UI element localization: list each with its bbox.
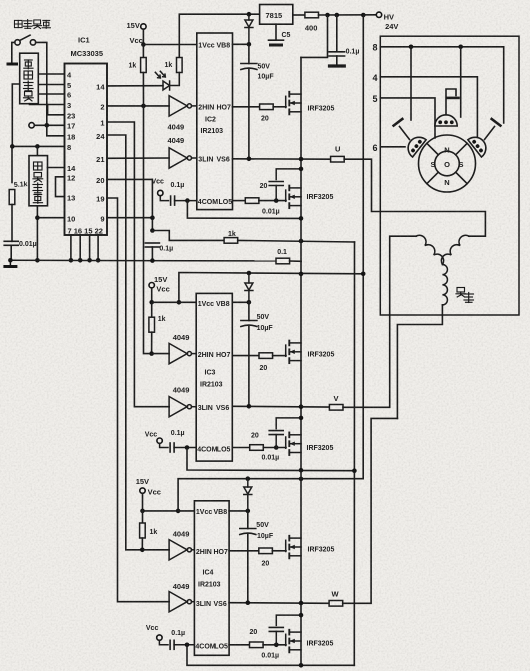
hall sensor right: [468, 133, 490, 157]
transistor IRF3205 (IC2 low): [286, 186, 301, 209]
node junction (187,447.5): [185, 445, 190, 450]
wire LO row IC4: [229, 644, 249, 646]
node throttle-gnd: [35, 258, 40, 263]
node pin17/18 junction: [45, 123, 50, 128]
wire VB row IC2: [233, 43, 249, 45]
node junction (301,417.9): [299, 416, 304, 421]
fuse U: [331, 156, 345, 162]
4049 inverter (IC3 HIN): [169, 343, 191, 363]
resistor 20 (IC3 gate high): [259, 353, 273, 359]
capacitor 0.01u (IC2): [276, 169, 301, 180]
resistor 1k (IC4): [142, 511, 144, 523]
wire COM down to source row IC4: [187, 645, 354, 666]
node junction (354.4,470.7): [352, 468, 357, 473]
node junction (301,273.9): [299, 272, 304, 277]
diode bootstrap IC4: [247, 479, 249, 487]
wire switch to ground bar: [12, 42, 15, 62]
wire hall supply row 8: [380, 47, 503, 123]
wire row8 drop to center hall: [460, 47, 462, 117]
sense/source bus vertical right: [353, 242, 355, 665]
diode bootstrap IC3: [248, 273, 250, 283]
node junction (178.9,302.3): [177, 300, 182, 305]
feed line 15V top (to 7815): [179, 14, 259, 57]
wire pin20 down: [107, 179, 152, 217]
node junction (460.7,46.8): [458, 45, 463, 50]
wire pin6: [38, 93, 64, 95]
wire pin2 to 4049 IC2: [107, 105, 169, 107]
4049 inverter (IC2 LIN): [169, 148, 191, 168]
wire switch right to pin17 node: [36, 42, 47, 125]
node bottom pins on bus: [69, 258, 74, 263]
4049 inverter (IC2 HIN): [169, 96, 191, 116]
wire pin3: [30, 103, 65, 106]
phase rail W: [300, 470, 302, 665]
IC3 IR2103 box: [196, 293, 232, 461]
resistor 20 (IC4 gate low): [249, 642, 263, 648]
wire COM down to source row IC3: [187, 448, 354, 471]
transistor IRF3205 (IC4 high): [286, 536, 301, 559]
resistor 1k (pullup pin2): [142, 45, 144, 58]
fuse W: [329, 601, 343, 607]
node junction (301,615.1): [299, 613, 304, 618]
transistor IRF3205 (IC3 high): [286, 341, 301, 364]
motor enclosure box: [380, 36, 519, 315]
wire hall block left to pin8 rail: [12, 84, 19, 146]
capacitor 50V 10uF (IC2 bootstrap): [248, 44, 250, 63]
rotor magnet: [419, 135, 476, 192]
wire pin5: [38, 84, 64, 86]
LED indicator: [155, 71, 169, 90]
capacitor 0.01u (left): [4, 241, 18, 245]
wire pin14 to LED: [107, 85, 163, 87]
node pin9/pin20: [150, 215, 155, 220]
lead right hall: [485, 119, 501, 140]
node junction (301,406.7): [299, 404, 304, 409]
node junction (248.9,406.3): [247, 404, 252, 409]
wire v1: pin19 down to IC4 LIN: [107, 198, 169, 602]
wire pin17: [34, 124, 64, 126]
node junction (248.9,14.2): [247, 12, 252, 17]
node Vcc row IC2: [141, 42, 146, 47]
node junction (276.2,447.5): [274, 445, 279, 450]
node junction (301,159): [299, 157, 304, 162]
wire 7815 out: [293, 14, 305, 16]
wire v4: pin2 net down to IC3 HIN: [144, 106, 152, 354]
wire VB row IC4: [229, 510, 248, 512]
resistor 400: [305, 12, 319, 18]
wire row8 drop to left hall: [410, 47, 412, 120]
node junction (151.7,302.3): [149, 300, 154, 305]
wire pin21 to 4049 IC2 LIN: [107, 157, 169, 159]
node bus left end: [8, 258, 13, 263]
wire COM down to source row: [187, 201, 301, 219]
transistor IRF3205 (IC2 high): [286, 92, 301, 115]
node junction (178.1,510.9): [176, 509, 181, 514]
wire Vcc row to IC2: [143, 44, 196, 46]
wire sense jog to 1k: [152, 231, 224, 241]
node junction (301,168.9): [299, 167, 304, 172]
fuse V: [329, 405, 343, 411]
IC4 IR2103 box: [194, 501, 229, 656]
node junction (248.9,44.3): [247, 42, 252, 47]
phase rail U: [300, 57, 302, 261]
node junction (301,665.3): [299, 663, 304, 668]
wire U to motor: [344, 159, 485, 236]
wire HO row IC3: [232, 355, 259, 357]
node junction (301,478.9): [299, 477, 304, 482]
ground symbol: [5, 260, 16, 266]
label 制动刹车 (brake): [14, 20, 50, 29]
wire hall row 4: [380, 77, 477, 137]
terminal: [157, 635, 162, 640]
capacitor 50V 10uF (IC3): [248, 302, 250, 320]
node HV bus branch: [361, 13, 366, 18]
wire pin12/13 bracket: [56, 177, 65, 197]
IC1 left pin numbers: [67, 71, 76, 224]
ground bar: [7, 63, 19, 66]
hall sensor left: [404, 133, 426, 157]
node junction (187.4,200.6): [185, 198, 190, 203]
capacitor 0.1u (sense filter): [145, 243, 159, 247]
node pin2 branch: [141, 104, 146, 109]
wire pin9 jog: [107, 218, 152, 231]
lead left hall: [394, 119, 410, 140]
node junction (276.3,644.8): [274, 643, 279, 648]
hall sensor center: [435, 89, 459, 126]
terminal: [158, 190, 163, 195]
wire throttle block to pin14: [48, 167, 65, 169]
node junction (142.5,510.9): [140, 509, 145, 514]
winding U coil: [441, 235, 469, 264]
feed line IC3: [179, 273, 363, 303]
ground bus: [10, 259, 276, 262]
winding V coil: [416, 235, 444, 264]
resistor 1k (IC3): [151, 302, 153, 317]
terminal: [140, 488, 145, 493]
wire hall row 6: [380, 146, 405, 148]
wire HO row IC4: [229, 550, 259, 552]
node junction (301,218.4): [299, 216, 304, 221]
wire pin8 rail: [12, 145, 64, 147]
wire v3: pin1 down to IC3 LIN: [107, 122, 169, 407]
node junction (248.9,273): [247, 271, 252, 276]
capacitor 0.01u (IC4): [276, 615, 301, 625]
IC1 bottom pin wires to ground bus: [71, 235, 98, 260]
IC1 right pin numbers: [96, 83, 105, 224]
node junction (301,470.2): [299, 468, 304, 473]
terminal HV 24V: [376, 12, 381, 17]
node filter cap on bus: [150, 258, 155, 263]
resistor 20 (IC3 gate low): [250, 445, 264, 451]
wire 400 to HV terminal: [319, 14, 377, 16]
block 霍尔转把 (hall throttle): [29, 156, 48, 206]
terminal: [157, 438, 162, 443]
wire 1k to LED cathode: [170, 73, 179, 86]
wire pin18 jog: [47, 125, 65, 136]
wire LO row IC3: [232, 447, 249, 449]
wire hall row 5: [380, 98, 435, 138]
resistor 20 (IC2 gate low): [245, 198, 259, 204]
node junction (247.8,510.9): [246, 509, 251, 514]
regulator 7815: [260, 5, 293, 25]
transistor IRF3205 (IC4 low): [286, 630, 301, 653]
node junction (301,603): [299, 601, 304, 606]
4049 inverter (IC3 LIN): [169, 397, 191, 417]
wire HO row IC2: [233, 106, 260, 108]
capacitor 50V 10uF (IC4): [247, 511, 249, 529]
phase rail V: [300, 261, 302, 470]
node junction (151.6,353.6): [149, 351, 154, 356]
wire pin23 jog from pin3: [48, 105, 65, 115]
node sense filter top: [150, 228, 155, 233]
HV bus vertical (right): [362, 15, 364, 479]
node junction (187,644.8): [185, 643, 190, 648]
node HV/0.1u branch: [335, 13, 340, 18]
4049 inverter (IC4 LIN): [169, 592, 191, 612]
feed line IC4: [178, 479, 363, 511]
wire Vcc row IC3: [152, 301, 197, 303]
diode bootstrap IC2: [248, 14, 250, 20]
resistor 20 (IC2 gate high): [260, 104, 274, 110]
wire pin10: [37, 217, 64, 219]
resistor 20 (IC4 gate high): [259, 548, 273, 554]
node pin8/throttle top: [35, 144, 40, 149]
node HV/drain branch: [325, 13, 330, 18]
terminal: [141, 24, 146, 29]
wire LO row IC2: [233, 200, 246, 202]
node junction (247.8,478.7): [246, 476, 251, 481]
IC1 MC33035 box: [65, 64, 108, 236]
block 电机霍尔 (motor hall): [20, 53, 39, 103]
wire throttle bottom to gnd: [36, 206, 38, 260]
winding W coil: [442, 265, 447, 305]
wire V to motor: [343, 236, 416, 407]
wire HIN row IC3: [152, 353, 170, 355]
label 马达 (motor): [456, 288, 474, 303]
node junction (248.9,158.8): [247, 157, 252, 162]
node junction (248.9,302.3): [247, 300, 252, 305]
wire W to motor: [343, 418, 398, 603]
wire sense row to phase rail: [238, 240, 355, 242]
terminal at pin17: [29, 123, 34, 128]
4049 inverter (IC4 HIN): [169, 540, 191, 560]
rotor pole labels N S O S N: [430, 146, 463, 188]
wire VB row IC3: [232, 301, 249, 303]
resistor 5.1k: [11, 146, 13, 182]
terminal: [149, 283, 154, 288]
wire VS row IC3 / V output: [232, 405, 330, 408]
node sense/source rail: [299, 239, 304, 244]
node junction (247.8,602.7): [246, 600, 251, 605]
node junction (363.2,273.8): [361, 272, 366, 277]
capacitor 0.01u (IC3): [276, 418, 301, 429]
node junction (276.2,200.6): [274, 198, 279, 203]
wire Vcc row IC4: [143, 510, 195, 512]
wire W winding to phase W: [397, 305, 442, 419]
wire HV down to IC2 high FET drain: [301, 15, 328, 57]
wire throttle top: [36, 146, 38, 155]
wire pin4: [38, 73, 64, 75]
wire VS row IC4 / W output: [229, 602, 329, 605]
node junction (142.3,549.8): [140, 548, 145, 553]
transistor IRF3205 (IC3 low): [286, 433, 301, 456]
wire v2: pin24 down to IC4 HIN: [107, 135, 142, 550]
wire HIN row IC4: [142, 549, 169, 551]
node junction (411,46.8): [409, 45, 414, 50]
wire VS row IC2 / U output: [233, 158, 332, 160]
node pin8 left: [10, 144, 15, 149]
brake switch S1: [15, 35, 36, 45]
IC2 IR2103 box: [197, 33, 233, 210]
node pin10: [35, 215, 40, 220]
